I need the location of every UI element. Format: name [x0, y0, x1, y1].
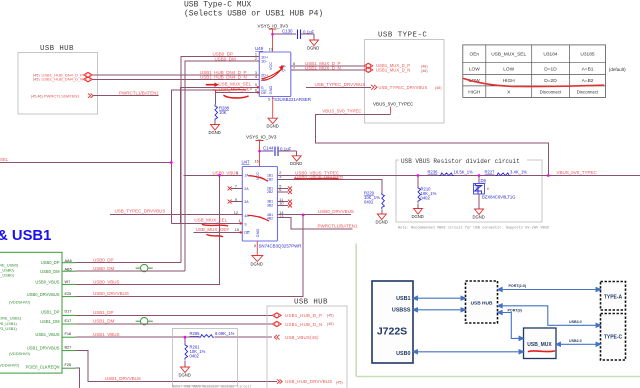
wire USB1_VBUS (F18) — [76, 336, 200, 338]
node SEL horizontal wire — [0, 162, 171, 164]
wire to C130 — [273, 33, 297, 35]
svg-text:1: 1 — [238, 219, 240, 223]
USB HUB box (top-left) — [18, 45, 98, 114]
svg-text:USB HUB: USB HUB — [40, 45, 74, 53]
block diagram: J722S SoC box — [372, 281, 413, 363]
svg-text:USB1_HUB_D_N: USB1_HUB_D_N — [285, 322, 322, 327]
svg-text:U49: U49 — [255, 46, 264, 51]
svg-text:R236: R236 — [428, 169, 439, 174]
svg-text:DGND: DGND — [267, 124, 279, 129]
wire USB1_MUX_D_N (U49 D- out) — [291, 69, 365, 71]
svg-text:DGND: DGND — [307, 46, 319, 51]
svg-text:USB1_DP: USB1_DP — [93, 310, 114, 315]
wire USB0_DP into U49 pin1 — [181, 56, 259, 262]
svg-text:3B2: 3B2 — [267, 203, 273, 207]
unused pin X 2A — [228, 186, 243, 190]
power flag VSYS_IO_3V3 (U47) — [246, 135, 277, 167]
unused pins X 2B1 2B2 — [278, 186, 293, 190]
svg-text:VCC: VCC — [268, 62, 273, 70]
svg-text:8: 8 — [254, 244, 256, 248]
red scribble across table — [464, 79, 604, 87]
wire USB1_DP (D17) — [76, 314, 273, 316]
red underline annotation in USB_MUX — [529, 350, 555, 353]
svg-text:..: .. — [142, 320, 144, 324]
svg-text:4A: 4A — [244, 214, 249, 218]
svg-text:E25: E25 — [65, 292, 72, 296]
svg-text:USB_TYPEC_DRVVBUS: USB_TYPEC_DRVVBUS — [115, 208, 166, 213]
svg-text:LOW: LOW — [469, 67, 480, 73]
svg-text:(VDDSHV0): (VDDSHV0) — [9, 351, 31, 356]
connector USB_HUB_DRVVBUS (45) — [277, 379, 282, 383]
wire VBUS_5V0_TYPEC to right edge — [548, 175, 640, 177]
svg-text:0402: 0402 — [421, 196, 431, 201]
svg-text:VBUS_5V0_TYPEC: VBUS_5V0_TYPEC — [557, 170, 598, 175]
wire USB0_VBUS vertical to SoC pin W7 — [76, 175, 220, 284]
svg-text:D17: D17 — [65, 310, 72, 314]
svg-text:USB1_HUB_DN4_D_N: USB1_HUB_DN4_D_N — [42, 77, 84, 82]
arrow USB3.0 USB HUB to TYPE-C — [498, 304, 601, 328]
svg-text:R227: R227 — [485, 169, 496, 174]
svg-text:0402: 0402 — [190, 354, 200, 359]
red squiggle under USB_MUX_OE# — [207, 235, 223, 237]
svg-text:(VDDSHV0): (VDDSHV0) — [9, 300, 31, 305]
junction R261 node — [184, 336, 187, 339]
svg-text:PWRCTL1/BATEN1: PWRCTL1/BATEN1 — [318, 223, 358, 228]
svg-text:USB1_VBUS: USB1_VBUS — [35, 332, 59, 337]
svg-text:(default): (default) — [609, 67, 626, 72]
svg-text:USB0_VBUS: USB0_VBUS — [93, 279, 120, 284]
svg-text:D=2D: D=2D — [544, 78, 557, 84]
svg-text:(45): (45) — [33, 78, 40, 82]
svg-text:USB1_DM: USB1_DM — [93, 319, 115, 324]
svg-text:GND: GND — [255, 228, 260, 237]
ground DGND (R210) — [412, 209, 424, 220]
svg-text:OEn: OEn — [469, 52, 479, 58]
arrow USB1 to USB HUB — [413, 296, 466, 300]
wire USB_MUX_SEL (to U49 S) — [180, 87, 259, 223]
svg-text:OE: OE — [244, 231, 250, 235]
svg-text:USB0_DRVVBUS: USB0_DRVVBUS — [93, 291, 129, 296]
svg-text:USB0_DM: USB0_DM — [40, 269, 60, 274]
title text — [184, 1, 323, 19]
svg-text:USB_MUX_SEL: USB_MUX_SEL — [194, 218, 227, 223]
green SoC box (bottom-left) — [0, 252, 62, 373]
svg-text:USB_MUX_OE#: USB_MUX_OE# — [196, 227, 230, 232]
ferrite/ESD symbol on USB0_DM — [136, 264, 153, 271]
arrow USB2.0 USB_MUX to TYPE-C — [556, 342, 601, 346]
svg-text:USB1_MUX_D_N: USB1_MUX_D_N — [305, 65, 341, 70]
wire USB0_DM into U49 pin2 — [185, 61, 259, 271]
red strike annotation on USB0_VBUS_UNUSED — [294, 177, 339, 180]
svg-text:USB1_HUB_D_P: USB1_HUB_D_P — [285, 313, 322, 318]
red squiggle under USB_MUX_SEL — [203, 225, 228, 226]
svg-text:9.09K_1%: 9.09K_1% — [215, 331, 235, 336]
bottom USB HUB box pins — [272, 313, 281, 318]
svg-text:DGND: DGND — [209, 130, 221, 135]
pale green separator vertical — [355, 244, 357, 377]
svg-text:USB_HUB_DRVVBUS: USB_HUB_DRVVBUS — [285, 379, 332, 384]
capacitor C144 0.1uF — [263, 146, 297, 156]
svg-text:(Selects USB0 or USB1 HUB P4): (Selects USB0 or USB1 HUB P4) — [184, 10, 323, 19]
svg-text:USB0_DM: USB0_DM — [93, 266, 115, 271]
svg-text:SEL: SEL — [0, 157, 9, 162]
gray resistor box (bottom) — [172, 329, 237, 387]
wire VBUS_5V0_TYPEC routing down to divider — [316, 114, 549, 175]
svg-text:Note: Recommended VBUS circuit: Note: Recommended VBUS circuit for USB c… — [398, 226, 549, 231]
SoC pin names (green, inside right) — [26, 260, 60, 370]
wire USB0_DRVVBUS down to SoC E25 — [76, 215, 304, 297]
ground DGND (C144) — [290, 156, 302, 166]
svg-text:(1P8_USB1): (1P8_USB1) — [0, 321, 18, 326]
svg-text:C144: C144 — [263, 146, 274, 151]
red arrow annotation at USB_MUX_SEL — [206, 84, 216, 86]
svg-text:10K: 10K — [219, 110, 227, 115]
svg-text:USB0_VBUS: USB0_VBUS — [213, 170, 239, 175]
arrow PORT(3) USB HUB to USB_MUX — [498, 311, 524, 341]
red curve annotation under U49 left — [224, 96, 248, 98]
resistor R227 3.4K_1% (horizontal) — [485, 169, 528, 175]
arrow USBSS to USB HUB — [413, 308, 466, 312]
block diagram: USB_MUX box — [524, 328, 557, 359]
svg-text:D9: D9 — [481, 178, 487, 183]
svg-text:R265: R265 — [190, 331, 201, 336]
resistor R261 10K_1% 0402 (vertical) — [185, 337, 206, 367]
svg-text:U3184: U3184 — [543, 52, 557, 58]
svg-text:LOW: LOW — [503, 67, 514, 73]
svg-text:DGND: DGND — [251, 262, 263, 267]
svg-text:USB1_VBUS: USB1_VBUS — [93, 332, 120, 337]
svg-text:USB2.0: USB2.0 — [569, 339, 582, 343]
ground DGND (D9) — [473, 209, 485, 220]
svg-text:(48): (48) — [435, 86, 442, 90]
svg-text:PORT(2:0): PORT(2:0) — [509, 284, 527, 288]
svg-text:C130: C130 — [282, 29, 293, 34]
op-amp U47 SN74CB3Q3257PWR mux chip — [242, 160, 302, 249]
svg-text:(48): (48) — [421, 69, 428, 73]
svg-text:VSYS_IO_3V3: VSYS_IO_3V3 — [246, 135, 277, 140]
svg-text:DGND: DGND — [473, 215, 485, 220]
wire USB1_DM (E17) — [76, 323, 273, 325]
red switch arc 4A-4B2 inside U47 — [249, 215, 269, 220]
svg-text:(45,46): (45,46) — [31, 94, 43, 98]
svg-text:USB1_DM: USB1_DM — [40, 319, 60, 324]
wire USB1_MUX_D_P (U49 D+ out) — [291, 65, 365, 67]
ground DGND (C130) — [307, 40, 319, 51]
svg-text:DGND: DGND — [376, 220, 388, 225]
svg-text:PORT(3): PORT(3) — [508, 309, 523, 313]
svg-text:TS3USB221ARSER: TS3USB221ARSER — [272, 97, 312, 102]
svg-text:DGND: DGND — [412, 214, 424, 219]
wire USB1_DRVVBUS (B27) — [76, 351, 278, 382]
svg-text:USB0 & USB1: USB0 & USB1 — [0, 228, 51, 244]
wire USB_TYPEC_DRVVBUS into U47 4A — [110, 214, 242, 216]
svg-text:USB1_DP: USB1_DP — [41, 310, 60, 315]
truth table — [463, 45, 626, 98]
svg-text:10: 10 — [269, 48, 273, 52]
ground DGND (R261) — [179, 367, 191, 378]
ground DGND (U47) — [251, 241, 263, 267]
svg-text:(45): (45) — [327, 322, 334, 326]
wire PCIE0_CLKREQN (F25) — [76, 368, 80, 388]
wire USB_MUX_OE# (to U49 OE) — [171, 90, 215, 223]
svg-text:F25: F25 — [65, 363, 72, 367]
junction VBUS_5V0_TYPEC node — [547, 174, 550, 177]
svg-text:PWRCTL1/BATEN1: PWRCTL1/BATEN1 — [119, 90, 159, 95]
svg-text:TYPE-C: TYPE-C — [604, 335, 623, 341]
resistor R265 9.09K_1% (horizontal) — [190, 331, 273, 337]
block diagram: USB HUB box (dashed) — [466, 281, 498, 323]
U47 right pin numbers — [279, 171, 283, 219]
wire to C144 — [260, 150, 274, 152]
svg-text:(3P3_USB1): (3P3_USB1) — [0, 326, 18, 331]
svg-text:USB0_DP: USB0_DP — [41, 260, 60, 265]
svg-text:USB_VBUS(45): USB_VBUS(45) — [285, 335, 319, 340]
svg-text:Note: USB VBUS Resistor divide: Note: USB VBUS Resistor divider circuit — [172, 385, 251, 388]
svg-text:USB0_VBUS: USB0_VBUS — [35, 280, 59, 285]
wire USB_MUX_OE# into U47 OE — [194, 231, 243, 233]
wire USB0_VBUS_TYPEC from U47 1B1 through divider — [278, 175, 549, 177]
ground DGND (R288) — [209, 125, 221, 136]
ferrite/ESD symbol on USB1_DM — [136, 318, 153, 325]
svg-text:U47: U47 — [242, 160, 251, 165]
svg-text:1D-: 1D- — [261, 58, 268, 63]
svg-text:U3185: U3185 — [580, 52, 594, 58]
svg-text:USB0_DRVVBUS: USB0_DRVVBUS — [27, 292, 60, 297]
svg-text:USB1_MUX_D_N: USB1_MUX_D_N — [376, 68, 410, 73]
svg-text:E17: E17 — [65, 319, 72, 323]
svg-text:USB0_DRVVBUS: USB0_DRVVBUS — [318, 209, 354, 214]
svg-text:(CORE_USB1): (CORE_USB1) — [0, 316, 22, 321]
svg-text:13: 13 — [279, 215, 283, 219]
svg-text:USB0_DM: USB0_DM — [215, 56, 237, 61]
svg-text:TYPE-A: TYPE-A — [604, 295, 623, 301]
svg-text:GND: GND — [268, 85, 273, 94]
svg-text:2B2: 2B2 — [267, 190, 273, 194]
block diagram: TYPE-A box (dashed) — [601, 282, 626, 311]
svg-text:Disconnect: Disconnect — [577, 90, 599, 95]
svg-text:USB VBUS Resistor divider circ: USB VBUS Resistor divider circuit — [401, 158, 520, 165]
svg-text:(3P3_USB0): (3P3_USB0) — [0, 272, 15, 277]
svg-text:USB Type-C MUX: USB Type-C MUX — [184, 1, 251, 10]
red annotation arrow inside U49 — [262, 69, 282, 80]
svg-text:A=B1: A=B1 — [582, 67, 594, 73]
svg-text:2A: 2A — [244, 187, 249, 191]
unused pins X 3B1 3B2 — [278, 200, 293, 204]
U47 left pin numbers — [234, 171, 241, 232]
wire USB1_HUB_DN4_D_P (to pin3) — [92, 74, 259, 76]
wire USB0_VBUS into U47 1A — [184, 174, 243, 176]
power flag VSYS_IO_3V3 (U49) — [258, 24, 289, 53]
red strike annotation on USB_MUX_OE# label — [213, 89, 247, 92]
svg-text:PWRCTL1/BATEN1: PWRCTL1/BATEN1 — [44, 93, 80, 98]
wire USB0_DRVVBUS from U47 4B1 — [278, 214, 352, 216]
pale green separator horizontal — [356, 376, 640, 378]
junction R210 node — [417, 174, 420, 177]
SoC green pin stubs — [62, 263, 76, 369]
junction D9 node — [478, 174, 481, 177]
svg-text:4: 4 — [255, 75, 257, 79]
svg-text:USB_MUX: USB_MUX — [527, 342, 552, 348]
svg-text:USB_TYPEC_DRVVBUS: USB_TYPEC_DRVVBUS — [379, 85, 428, 90]
svg-text:Disconnect: Disconnect — [540, 90, 562, 95]
resistor R236 16.5K_1% (horizontal) — [428, 169, 474, 175]
junction VCC U49 — [271, 33, 274, 36]
red switch arc 1A-1B2 inside U47 — [249, 176, 267, 181]
svg-text:B27: B27 — [65, 346, 72, 350]
svg-text:9: 9 — [255, 83, 257, 87]
connector USB_VBUS(45) — [274, 335, 279, 340]
svg-text:USB TYPE-C: USB TYPE-C — [378, 32, 427, 40]
svg-text:VBUS_5V0_TYPEC: VBUS_5V0_TYPEC — [322, 109, 361, 114]
svg-text:F18: F18 — [65, 332, 72, 336]
U49 left pin numbers — [255, 53, 257, 93]
svg-text:USB0_DP: USB0_DP — [93, 257, 114, 262]
svg-text:16: 16 — [255, 160, 259, 164]
svg-text:USB HUB: USB HUB — [294, 299, 328, 307]
connector PWRCTL1/BATEN1 with wire — [88, 93, 93, 97]
svg-text:USB1_DRVVBUS: USB1_DRVVBUS — [27, 345, 60, 350]
unused pin X 3A — [228, 200, 243, 204]
svg-text:15: 15 — [235, 228, 239, 232]
wire USB_MUX_SEL into U47 S — [171, 222, 242, 224]
block diagram: TYPE-C box (dashed) — [601, 314, 626, 361]
svg-text:HIGH: HIGH — [503, 78, 516, 84]
svg-text:(VDDSHV0): (VDDSHV0) — [0, 362, 20, 367]
wire USB1_HUB_DN4_D_N (to pin4) — [92, 78, 259, 80]
svg-text:SN74CB3Q3257PWR: SN74CB3Q3257PWR — [259, 243, 302, 248]
junction VCC U47 — [258, 150, 261, 153]
U49 right pin numbers — [293, 62, 295, 70]
svg-text:USB1: USB1 — [396, 296, 410, 302]
svg-text:(45): (45) — [327, 314, 334, 318]
arrow USB0 J722S to USB_MUX — [413, 350, 524, 354]
svg-text:(45): (45) — [336, 380, 343, 384]
svg-text:USB HUB: USB HUB — [471, 301, 493, 307]
svg-text:DGND: DGND — [179, 373, 191, 378]
connector pads USB1_HUB_DN4_D_P/N — [84, 72, 93, 77]
USB TYPE-C box (top-right) — [365, 32, 445, 124]
resistor R288 10K (pull on OE net) — [215, 92, 230, 124]
svg-text:PCIE0_CLKREQN: PCIE0_CLKREQN — [26, 364, 60, 369]
bottom USB HUB box — [267, 299, 347, 388]
svg-text:W7: W7 — [65, 280, 71, 284]
svg-text:3.4K_1%: 3.4K_1% — [510, 169, 527, 174]
resistor R229 10K_1% 0402 — [364, 190, 384, 214]
svg-text:USB1_HUB_DN4_D_N: USB1_HUB_DN4_D_N — [200, 74, 247, 79]
svg-text:USB_MUX_SEL: USB_MUX_SEL — [491, 52, 526, 58]
zener diode D9 BZX84C6V8LT1G — [474, 176, 516, 210]
ground DGND (R229) — [376, 214, 388, 225]
svg-text:USBSS: USBSS — [392, 308, 411, 314]
svg-text:OE: OE — [261, 90, 267, 95]
svg-text:VBUS_5V0_TYPEC: VBUS_5V0_TYPEC — [373, 102, 414, 107]
svg-text:16.5K_1%: 16.5K_1% — [454, 169, 474, 174]
SoC left domain labels — [0, 263, 31, 368]
svg-text:USB3.0: USB3.0 — [569, 320, 582, 324]
wire USB0_DP (AA6) — [76, 262, 181, 264]
SoC pin numbers — [65, 259, 72, 367]
svg-text:AA6: AA6 — [65, 259, 72, 263]
wire PWRCTL1/BATEN1 from U47 4B2 — [278, 218, 353, 229]
USB VBUS Resistor divider circuit box — [396, 157, 542, 223]
svg-text:AB5: AB5 — [65, 267, 72, 271]
resistor R210 10K_1% 0402 (vertical) — [418, 176, 437, 209]
svg-text:D=1D: D=1D — [544, 67, 557, 73]
wire USB0_VBUS_UNUSED from U47 1B2 — [278, 179, 382, 192]
op-amp U49 TS3USB221ARSER mux chip — [255, 46, 311, 102]
USB HUB box (top-left) contents — [31, 72, 83, 98]
wire USB_TYPEC_DRVVBUS (top, into TYPE-C box) — [306, 86, 371, 88]
svg-text:USB1_DRVVBUS: USB1_DRVVBUS — [105, 376, 141, 381]
wire USB0_DM (AB5) — [76, 270, 185, 272]
svg-text:J722S: J722S — [377, 326, 407, 338]
arrow PORT(2:0) USB HUB to TYPE-A — [498, 288, 601, 292]
svg-text:3A: 3A — [244, 200, 249, 204]
svg-text:5: 5 — [268, 98, 270, 102]
connector pads USB1_MUX_D_P/N at TYPE-C box — [364, 63, 373, 68]
svg-text:0402: 0402 — [364, 200, 374, 205]
svg-text:HIGH: HIGH — [468, 90, 481, 96]
capacitor C130 0.1uF — [282, 29, 315, 41]
svg-text:(48): (48) — [421, 64, 428, 68]
svg-text:2: 2 — [255, 57, 257, 61]
svg-text:DGND: DGND — [290, 161, 302, 166]
svg-text:USB_TYPEC_DRVVBUS: USB_TYPEC_DRVVBUS — [315, 82, 366, 87]
svg-text:A=B2: A=B2 — [582, 78, 594, 84]
svg-text:USB0: USB0 — [396, 351, 410, 357]
svg-text:BZX84C6V8LT1G: BZX84C6V8LT1G — [482, 195, 515, 200]
svg-text:..: .. — [142, 267, 144, 271]
ground DGND (U49) — [267, 97, 279, 129]
